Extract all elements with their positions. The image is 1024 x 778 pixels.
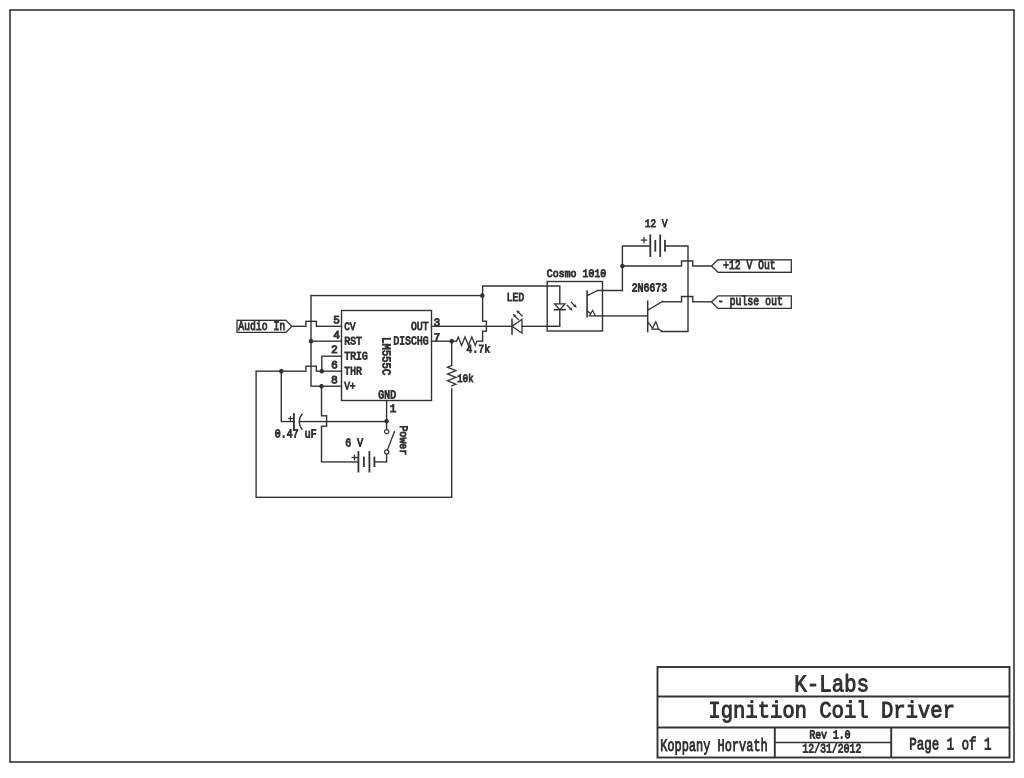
svg-text:6 V: 6 V [345, 438, 363, 451]
svg-text:7: 7 [434, 333, 441, 345]
svg-text:12/31/2012: 12/31/2012 [802, 743, 861, 756]
svg-text:4.7k: 4.7k [466, 344, 490, 357]
svg-text:GND: GND [378, 390, 396, 403]
svg-text:Ignition Coil Driver: Ignition Coil Driver [708, 698, 955, 724]
svg-text:8: 8 [331, 375, 338, 387]
svg-text:2N6673: 2N6673 [632, 283, 668, 296]
svg-text:+12 V Out: +12 V Out [723, 259, 776, 274]
svg-text:6: 6 [331, 361, 338, 373]
svg-text:4: 4 [333, 331, 340, 343]
svg-text:TRIG: TRIG [344, 351, 368, 364]
svg-text:Power: Power [396, 426, 409, 456]
svg-text:Rev 1.0: Rev 1.0 [809, 730, 850, 743]
svg-text:0.47 uF: 0.47 uF [275, 429, 317, 442]
svg-text:3: 3 [434, 318, 441, 330]
svg-text:LM555C: LM555C [378, 337, 390, 376]
svg-text:Cosmo 1010: Cosmo 1010 [547, 269, 606, 282]
svg-text:OUT: OUT [411, 321, 429, 334]
svg-text:CV: CV [344, 321, 356, 334]
svg-text:10k: 10k [457, 373, 473, 386]
svg-text:LED: LED [507, 292, 525, 305]
svg-text:V+: V+ [344, 381, 355, 394]
svg-text:- pulse out: - pulse out [718, 295, 783, 310]
svg-text:Koppany Horvath: Koppany Horvath [660, 735, 768, 756]
svg-text:Audio In: Audio In [238, 320, 285, 335]
svg-text:RST: RST [344, 336, 362, 349]
svg-text:12 V: 12 V [645, 218, 668, 231]
svg-text:1: 1 [390, 404, 397, 416]
svg-text:2: 2 [331, 345, 338, 357]
svg-text:K-Labs: K-Labs [794, 671, 869, 699]
svg-text:THR: THR [344, 366, 362, 379]
svg-text:5: 5 [333, 316, 340, 328]
svg-text:Page 1 of 1: Page 1 of 1 [909, 734, 991, 755]
svg-text:DISCHG: DISCHG [393, 336, 428, 349]
